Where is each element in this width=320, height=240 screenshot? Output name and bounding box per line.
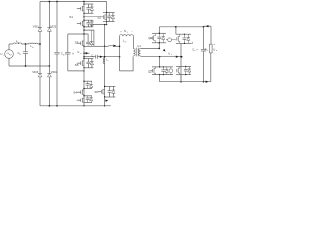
current arrow near bottom rail bbox=[105, 99, 108, 101]
load resistor R_L bbox=[210, 26, 212, 44]
resonant inductor L_r on vertical bbox=[103, 58, 104, 64]
S4 lower bus bbox=[84, 95, 92, 97]
rectifier cell Q3 bottom left bbox=[159, 57, 161, 67]
rectifier cell Q2 top right bbox=[175, 27, 177, 34]
arrow on output bottom rail bbox=[206, 81, 209, 83]
switch S4 tall cell top branch bbox=[84, 80, 92, 82]
current arrow i_r stub bbox=[84, 52, 90, 54]
S3 cell bottom bus feeding primary bbox=[84, 45, 94, 47]
resonant capacitor C_r on wire y56.7 bbox=[84, 56, 96, 58]
transformer secondary winding vertical bbox=[139, 49, 141, 56]
node between La and Lb bbox=[25, 43, 27, 45]
lower branch cap and diode bbox=[87, 96, 89, 98]
svg-text:s: s bbox=[171, 54, 172, 56]
current arrow on secondary bottom wire bbox=[176, 56, 179, 58]
svg-text:Q1: Q1 bbox=[148, 36, 152, 40]
svg-text:S4: S4 bbox=[73, 90, 77, 94]
current arrow on primary feed bbox=[113, 45, 116, 47]
svg-text:N: N bbox=[124, 29, 126, 33]
svg-text:VD3: VD3 bbox=[32, 70, 38, 74]
MOSFET lower on column 84 bbox=[77, 99, 81, 101]
vertical from S2-right cell down to primary feed bbox=[104, 25, 106, 87]
svg-text:U: U bbox=[168, 51, 170, 55]
switch S3 cell custom bbox=[84, 30, 94, 46]
top DC rail bbox=[40, 1, 107, 3]
wire input rail top bbox=[9, 43, 13, 45]
svg-text:Q2: Q2 bbox=[148, 69, 152, 73]
svg-text:U: U bbox=[77, 50, 79, 54]
bottom bus of lower cell bbox=[84, 102, 92, 104]
svg-text:VD2: VD2 bbox=[50, 24, 56, 28]
N1 right drop to transformer bbox=[133, 36, 135, 48]
flying capacitor column x67.8 bbox=[67, 34, 69, 52]
bridge rectifier column B bbox=[48, 2, 50, 28]
top rail drop to S2-right cell bbox=[106, 2, 108, 13]
wire col84 between cells bbox=[83, 2, 85, 5]
mid tap wire from cell2 jog to right cell bbox=[84, 25, 107, 27]
svg-text:VD4: VD4 bbox=[51, 70, 57, 74]
switch S5 cell bbox=[84, 58, 93, 60]
switch cell S2 right bbox=[107, 12, 115, 14]
primary winding N1 horizontal bbox=[120, 35, 134, 37]
MOSFET S4 bbox=[77, 91, 81, 93]
rectifier cell Q4 bottom right bbox=[176, 65, 191, 67]
current arrow on Cr wire bbox=[100, 56, 103, 58]
svg-text:S1: S1 bbox=[69, 15, 73, 19]
switch cell upper-mid on column 84 bbox=[84, 19, 93, 21]
primary loop bottom bbox=[120, 56, 134, 71]
output current arrow pointing left bbox=[206, 25, 209, 27]
diode VD2 bbox=[47, 27, 51, 29]
AC source U_i bbox=[5, 50, 14, 59]
gate tap wire to S2 cell bbox=[83, 13, 85, 20]
hook at right end of Q2 cell bus bbox=[191, 42, 193, 44]
svg-text:S3: S3 bbox=[75, 40, 79, 44]
output top wire bbox=[159, 26, 203, 28]
transformer core bars bbox=[135, 48, 137, 57]
wire from source bottom to bottom input rail bbox=[8, 58, 10, 66]
switch S6 cell bbox=[105, 85, 116, 87]
svg-text:S5: S5 bbox=[75, 63, 79, 67]
bottom DC rail bbox=[40, 105, 111, 107]
diode VD3 bbox=[38, 72, 42, 74]
input capacitor C_in bbox=[56, 2, 58, 53]
secondary voltage arrow bbox=[163, 49, 167, 53]
output bottom rail bbox=[160, 81, 211, 83]
svg-text:U: U bbox=[213, 47, 215, 51]
transformer primary winding vertical bbox=[133, 49, 135, 56]
vertical 181 down to bottom rail bbox=[180, 43, 182, 81]
primary feed wire with resonant inductor bbox=[94, 45, 109, 47]
svg-text:1: 1 bbox=[127, 32, 128, 34]
switch S1 cell bbox=[84, 3, 93, 5]
inductor L_b bbox=[29, 42, 39, 45]
secondary bottom wire bbox=[140, 55, 142, 58]
svg-text:S2: S2 bbox=[97, 16, 101, 20]
bridge rectifier column A bbox=[39, 2, 41, 28]
output capacitor C_o bbox=[203, 27, 205, 49]
magnetizing branch left column bbox=[119, 36, 121, 71]
diode VD4 bbox=[47, 72, 51, 74]
S4 mid bus bbox=[84, 88, 92, 90]
bottom input rail wire bbox=[9, 65, 49, 67]
inductor L_a bbox=[13, 43, 22, 44]
svg-text:U: U bbox=[0, 52, 2, 56]
svg-text:S6: S6 bbox=[94, 90, 98, 94]
sensor circle top bbox=[166, 39, 168, 41]
wire from source top to input rail bbox=[8, 44, 10, 50]
rectifier cell Q1 top left bbox=[158, 27, 160, 34]
svg-text:VD1: VD1 bbox=[33, 24, 39, 28]
capacitor C_b bbox=[25, 44, 27, 52]
secondary top wire bbox=[141, 47, 160, 49]
svg-text:n:1: n:1 bbox=[137, 44, 141, 48]
diode VD1 bbox=[38, 27, 42, 29]
